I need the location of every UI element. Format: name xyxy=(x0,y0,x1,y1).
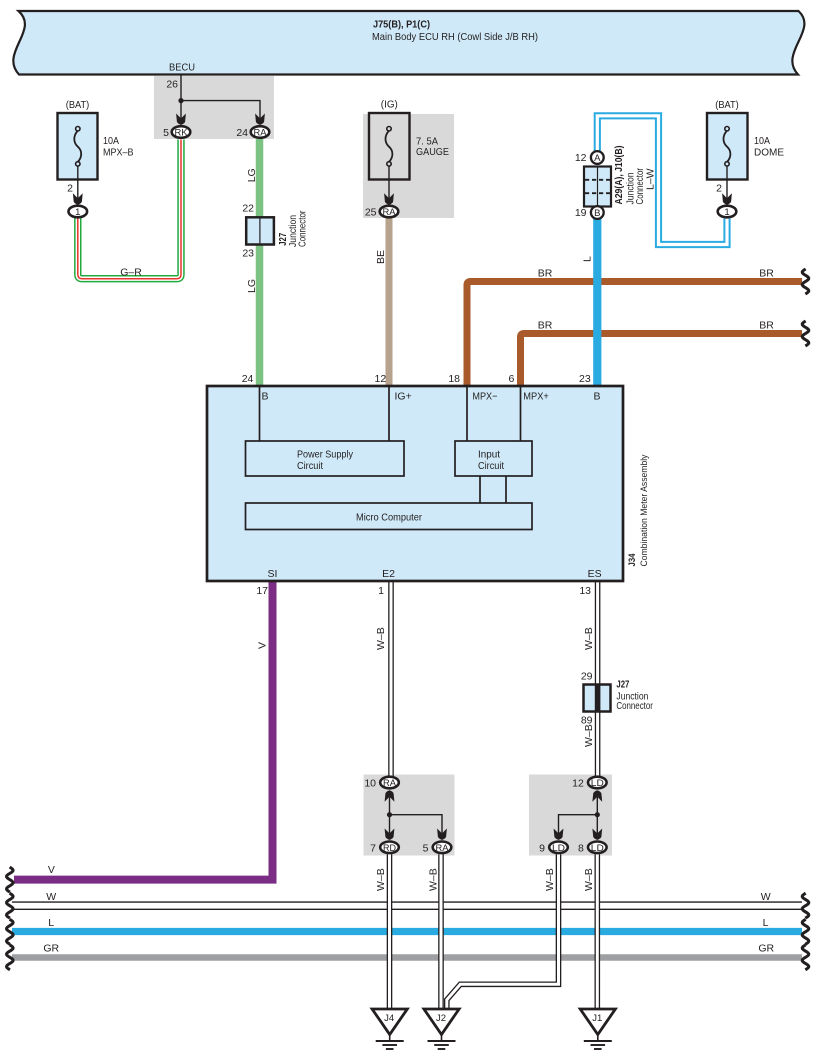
wire pin MPX+ to input circuit xyxy=(520,387,522,441)
svg-text:GR: GR xyxy=(43,943,59,955)
svg-text:23: 23 xyxy=(579,373,591,385)
svg-text:BECU: BECU xyxy=(169,62,195,74)
connector terminal LD pin 8 xyxy=(588,842,607,854)
svg-text:RA: RA xyxy=(254,128,268,139)
svg-text:5: 5 xyxy=(163,127,169,139)
svg-text:26: 26 xyxy=(166,79,178,91)
junction node RA10 branch xyxy=(387,812,392,817)
svg-text:RD: RD xyxy=(383,843,396,854)
svg-text:Main Body ECU RH (Cowl Side J/: Main Body ECU RH (Cowl Side J/B RH) xyxy=(372,31,538,43)
wire W-B (LD8 to ground J1) xyxy=(594,854,600,1009)
bus W xyxy=(12,901,802,910)
wire W-B (RD7 to ground J4) xyxy=(387,854,393,1009)
connector terminal LD pin 9 xyxy=(549,842,568,854)
svg-text:Micro Computer: Micro Computer xyxy=(356,512,422,524)
wire L (junction B to meter pin 23, over BR wires) xyxy=(593,219,601,386)
svg-text:LD: LD xyxy=(552,843,565,854)
break symbol BR upper right xyxy=(802,269,809,294)
wire RA10 branch xyxy=(390,797,443,834)
svg-text:V: V xyxy=(257,642,269,649)
block Input Circuit xyxy=(455,441,532,476)
svg-text:V: V xyxy=(48,864,55,876)
svg-text:LG: LG xyxy=(246,168,258,182)
svg-text:J1: J1 xyxy=(592,1013,602,1024)
svg-text:Connector: Connector xyxy=(297,210,309,247)
connector terminal 1 (MPX-B) xyxy=(69,206,88,218)
svg-text:B: B xyxy=(594,208,600,219)
junction connector A29(A) J10(B) xyxy=(584,167,611,207)
terminal B pin 19 xyxy=(591,206,604,219)
connector terminal RA pin 25 xyxy=(380,206,399,218)
connector terminal RD pin 7 xyxy=(380,842,399,854)
combination meter assembly J34 box xyxy=(207,386,623,581)
wire V (meter SI to left edge) xyxy=(14,581,273,880)
svg-text:10A: 10A xyxy=(103,135,119,147)
svg-text:18: 18 xyxy=(448,373,460,385)
junction connector J27 (pins 29/89) xyxy=(584,685,611,712)
svg-text:W–B: W–B xyxy=(375,868,387,891)
svg-text:BE: BE xyxy=(375,250,387,264)
svg-text:RA: RA xyxy=(383,207,397,218)
highlight box IG fuse xyxy=(363,114,454,218)
svg-text:RA: RA xyxy=(383,778,397,789)
svg-text:89: 89 xyxy=(581,715,593,727)
arrow into terminal RA 25 xyxy=(384,193,394,205)
svg-text:IG+: IG+ xyxy=(395,391,412,403)
svg-text:ES: ES xyxy=(588,568,602,580)
wire BR upper (MPX- branch) xyxy=(467,282,802,387)
highlight box ECU pins 5/24/26 xyxy=(154,76,274,139)
connector terminal RA pin 10 xyxy=(380,777,399,789)
arrow into pin 5 xyxy=(176,114,186,126)
svg-text:MPX−: MPX− xyxy=(472,391,497,403)
junction node on BECU branch xyxy=(178,98,183,103)
connector terminal LD pin 12 xyxy=(588,777,607,789)
svg-text:1: 1 xyxy=(724,207,729,218)
svg-text:12: 12 xyxy=(575,152,587,164)
svg-text:J75(B), P1(C): J75(B), P1(C) xyxy=(373,19,430,31)
svg-text:J27: J27 xyxy=(616,679,629,691)
svg-text:Circuit: Circuit xyxy=(478,460,504,472)
wire L-W (junction A to fuse DOME) xyxy=(597,116,727,245)
connector terminal RA pin 24 xyxy=(251,126,270,138)
break symbol W right xyxy=(802,893,809,918)
svg-text:9: 9 xyxy=(539,842,545,854)
svg-text:8: 8 xyxy=(578,842,584,854)
ground J4 xyxy=(372,1009,407,1049)
svg-text:L: L xyxy=(763,917,769,929)
svg-text:Power Supply: Power Supply xyxy=(297,449,354,461)
svg-text:GAUGE: GAUGE xyxy=(416,146,449,158)
svg-text:BR: BR xyxy=(538,268,553,280)
wire G-R (fuse MPX-B to ECU pin 5) xyxy=(78,140,181,279)
svg-text:1: 1 xyxy=(378,585,384,597)
junction connector J27 (pins 22/23) xyxy=(246,217,274,244)
svg-text:W: W xyxy=(46,891,56,903)
block Micro Computer xyxy=(246,503,533,530)
svg-text:W–B: W–B xyxy=(375,627,387,650)
svg-text:(IG): (IG) xyxy=(381,99,398,111)
break symbol W left xyxy=(7,893,14,918)
svg-text:Connector: Connector xyxy=(634,168,646,205)
wire input circuit to micro computer 1 xyxy=(479,476,481,503)
wire W-B (meter ES through J27 to LD12) xyxy=(595,581,601,776)
block Power Supply Circuit xyxy=(246,441,405,476)
connector terminal 1 (DOME) xyxy=(718,206,737,218)
svg-text:Circuit: Circuit xyxy=(297,460,323,472)
svg-text:W: W xyxy=(761,891,771,903)
arrow into LD8 xyxy=(592,829,602,841)
wire fuse DOME lead xyxy=(726,166,728,199)
arrow into LD9 xyxy=(554,829,564,841)
fuse 10A MPX-B xyxy=(58,99,134,180)
svg-text:SI: SI xyxy=(268,568,278,580)
connector terminal RA pin 5 xyxy=(433,842,452,854)
svg-text:L: L xyxy=(48,917,54,929)
svg-text:W–B: W–B xyxy=(583,724,595,747)
svg-text:Input: Input xyxy=(478,449,500,461)
svg-text:LG: LG xyxy=(246,279,258,293)
bus L xyxy=(12,928,802,935)
break symbol V left xyxy=(7,867,14,892)
svg-text:12: 12 xyxy=(375,373,387,385)
svg-text:13: 13 xyxy=(579,585,591,597)
svg-text:12: 12 xyxy=(572,778,584,790)
svg-text:BR: BR xyxy=(759,268,774,280)
fuse 10A DOME xyxy=(707,99,784,180)
svg-text:W–B: W–B xyxy=(583,627,595,650)
wire pin MPX- to input circuit xyxy=(466,387,468,441)
svg-text:W–B: W–B xyxy=(544,868,556,891)
arrow into connector 1 (MPX-B) xyxy=(73,193,83,205)
svg-text:J2: J2 xyxy=(436,1013,446,1024)
wire BECU to pins 5 and 24 xyxy=(181,76,260,119)
svg-text:W–B: W–B xyxy=(428,868,440,891)
arrow up into LD12 xyxy=(592,790,602,802)
svg-text:Combination Meter Assembly: Combination Meter Assembly xyxy=(639,454,650,566)
svg-text:6: 6 xyxy=(508,373,514,385)
break symbol BR lower right xyxy=(802,321,809,346)
svg-text:(BAT): (BAT) xyxy=(715,99,739,111)
svg-text:2: 2 xyxy=(716,183,722,195)
svg-text:BR: BR xyxy=(759,320,774,332)
wire W-B (LD9 bent to ground J2) xyxy=(447,854,559,1009)
svg-text:MPX–B: MPX–B xyxy=(103,147,134,159)
svg-text:7: 7 xyxy=(370,842,376,854)
svg-text:1: 1 xyxy=(75,207,80,218)
break symbol GR left xyxy=(7,945,14,970)
svg-text:LD: LD xyxy=(591,843,604,854)
svg-text:2: 2 xyxy=(67,183,73,195)
svg-text:29: 29 xyxy=(581,671,593,683)
break symbol GR right xyxy=(802,945,809,970)
svg-text:A: A xyxy=(594,153,601,164)
arrow into pin 24 xyxy=(255,114,265,126)
arrow into RD7 xyxy=(385,829,395,841)
junction node LD12 branch xyxy=(595,812,600,817)
svg-text:A29(A), J10(B): A29(A), J10(B) xyxy=(613,146,625,205)
break symbol L left xyxy=(7,919,14,944)
wire LD12 branch xyxy=(559,797,598,834)
wire input circuit to micro computer 2 xyxy=(505,476,507,503)
ground J2 xyxy=(424,1009,459,1049)
arrow up into RA10 xyxy=(385,790,395,802)
svg-text:22: 22 xyxy=(242,203,254,215)
svg-text:24: 24 xyxy=(242,373,254,385)
svg-text:G–R: G–R xyxy=(120,267,142,279)
wire pin IG+ to power supply xyxy=(388,387,390,441)
svg-text:J34: J34 xyxy=(627,553,638,567)
svg-text:DOME: DOME xyxy=(754,147,784,159)
svg-text:GR: GR xyxy=(758,943,774,955)
svg-text:BR: BR xyxy=(538,320,553,332)
svg-text:5: 5 xyxy=(423,842,429,854)
highlight box connector RA10/RD7/RA5 xyxy=(364,775,455,856)
svg-text:10: 10 xyxy=(364,778,376,790)
svg-text:19: 19 xyxy=(575,207,587,219)
ground J1 xyxy=(580,1009,615,1049)
arrow into connector 1 (DOME) xyxy=(722,193,732,205)
svg-text:B: B xyxy=(262,391,269,403)
svg-text:LD: LD xyxy=(591,778,604,789)
svg-text:L–W: L–W xyxy=(645,168,657,190)
svg-text:E2: E2 xyxy=(382,568,395,580)
svg-text:24: 24 xyxy=(236,127,248,139)
fuse 7.5A GAUGE xyxy=(369,99,449,180)
svg-text:23: 23 xyxy=(242,248,254,260)
svg-text:L: L xyxy=(582,256,594,262)
svg-text:17: 17 xyxy=(256,585,268,597)
svg-text:W–B: W–B xyxy=(583,868,595,891)
svg-text:25: 25 xyxy=(365,207,377,219)
wire fuse GAUGE lead xyxy=(388,166,390,199)
wire W-B (RA5 to ground J2) xyxy=(438,854,444,1009)
wire pin B to power supply xyxy=(259,387,261,441)
ECU banner J75(B) P1(C) xyxy=(13,11,804,75)
svg-text:Connector: Connector xyxy=(616,700,653,712)
svg-text:MPX+: MPX+ xyxy=(523,391,549,403)
svg-text:J4: J4 xyxy=(384,1013,394,1024)
svg-text:RK: RK xyxy=(175,128,189,139)
wire fuse MPX-B lead xyxy=(77,166,79,199)
connector terminal RK pin 5 xyxy=(172,126,191,138)
highlight box connector LD12/LD9/LD8 xyxy=(529,775,612,856)
wire BE (fuse GAUGE to meter IG+) xyxy=(386,219,393,387)
bus GR xyxy=(12,954,802,961)
arrow into RA5 xyxy=(437,829,447,841)
break symbol L right xyxy=(802,919,809,944)
svg-text:B: B xyxy=(593,391,600,403)
svg-text:(BAT): (BAT) xyxy=(66,99,90,111)
svg-text:10A: 10A xyxy=(754,135,770,147)
svg-text:RA: RA xyxy=(436,843,450,854)
wire LG (ECU pin 24 to meter pin 24) xyxy=(256,139,264,386)
wire W-B (meter E2 to connector RA10) xyxy=(388,581,394,776)
wire BR lower (MPX+ branch) xyxy=(521,334,803,387)
terminal A pin 12 xyxy=(591,151,604,164)
